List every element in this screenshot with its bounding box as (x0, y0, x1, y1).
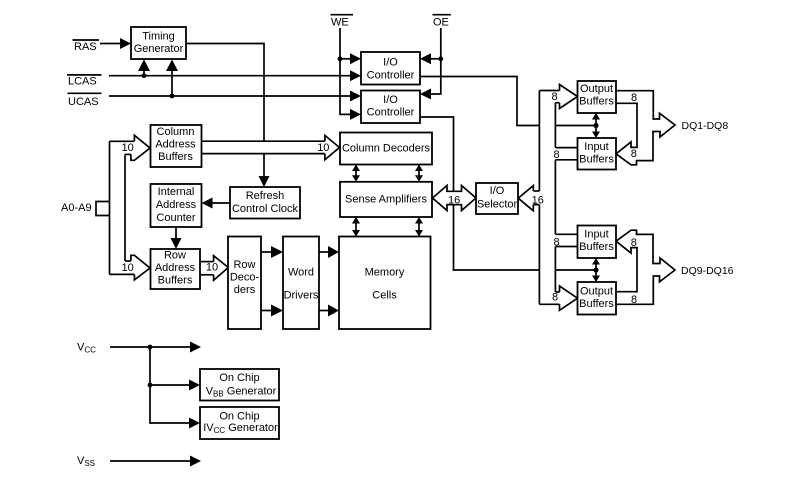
svg-text:Row: Row (233, 259, 255, 271)
svg-text:I/O: I/O (490, 185, 505, 197)
svg-text:LCAS: LCAS (68, 76, 97, 88)
svg-text:On Chip: On Chip (219, 372, 259, 384)
svg-text:On Chip: On Chip (219, 411, 259, 423)
svg-text:Column: Column (157, 126, 195, 138)
svg-text:Buffers: Buffers (158, 151, 193, 163)
svg-text:Input: Input (584, 229, 608, 241)
svg-text:WE: WE (331, 17, 349, 29)
svg-text:16: 16 (532, 194, 544, 206)
svg-text:Control Clock: Control Clock (232, 203, 299, 215)
svg-text:Counter: Counter (156, 212, 195, 224)
svg-text:Address: Address (156, 199, 197, 211)
svg-text:Buffers: Buffers (579, 241, 614, 253)
svg-text:DQ9-DQ16: DQ9-DQ16 (681, 265, 734, 277)
svg-text:Address: Address (155, 262, 196, 274)
svg-text:8: 8 (631, 148, 637, 160)
svg-text:8: 8 (552, 292, 558, 304)
svg-text:Output: Output (580, 286, 613, 298)
svg-text:Buffers: Buffers (158, 275, 193, 287)
svg-text:RAS: RAS (74, 41, 97, 53)
svg-text:Drivers: Drivers (284, 290, 319, 302)
svg-text:Column Decoders: Column Decoders (342, 143, 431, 155)
svg-text:I/O: I/O (383, 94, 398, 106)
svg-text:10: 10 (206, 262, 218, 274)
svg-text:Input: Input (584, 141, 608, 153)
svg-text:Row: Row (164, 250, 186, 262)
svg-text:UCAS: UCAS (68, 96, 99, 108)
svg-text:Buffers: Buffers (579, 96, 614, 108)
svg-text:Controller: Controller (367, 69, 415, 81)
svg-text:Refresh: Refresh (246, 190, 285, 202)
svg-text:8: 8 (554, 237, 560, 249)
svg-text:8: 8 (631, 92, 637, 104)
svg-text:Cells: Cells (372, 290, 397, 302)
svg-text:10: 10 (317, 142, 329, 154)
svg-text:DQ1-DQ8: DQ1-DQ8 (682, 120, 729, 132)
svg-text:I/O: I/O (383, 56, 398, 68)
svg-text:Address: Address (155, 138, 196, 150)
svg-text:Internal: Internal (158, 186, 195, 198)
svg-text:Deco-: Deco- (230, 272, 260, 284)
svg-text:OE: OE (433, 17, 449, 29)
svg-text:Generator: Generator (134, 43, 184, 55)
svg-text:Memory: Memory (365, 267, 405, 279)
svg-text:A0-A9: A0-A9 (61, 202, 92, 214)
svg-text:Sense Amplifiers: Sense Amplifiers (345, 193, 427, 205)
svg-text:8: 8 (552, 91, 558, 103)
svg-text:8: 8 (631, 294, 637, 306)
svg-text:8: 8 (554, 149, 560, 161)
svg-text:Buffers: Buffers (579, 154, 614, 166)
svg-text:Timing: Timing (142, 31, 175, 43)
svg-text:10: 10 (122, 262, 134, 274)
svg-text:16: 16 (448, 194, 460, 206)
svg-text:ders: ders (234, 284, 256, 296)
svg-text:8: 8 (631, 237, 637, 249)
svg-text:Selector: Selector (477, 199, 518, 211)
svg-text:Controller: Controller (367, 106, 415, 118)
svg-text:Buffers: Buffers (579, 298, 614, 310)
svg-text:Word: Word (288, 267, 314, 279)
svg-text:10: 10 (122, 142, 134, 154)
svg-text:Output: Output (580, 83, 613, 95)
